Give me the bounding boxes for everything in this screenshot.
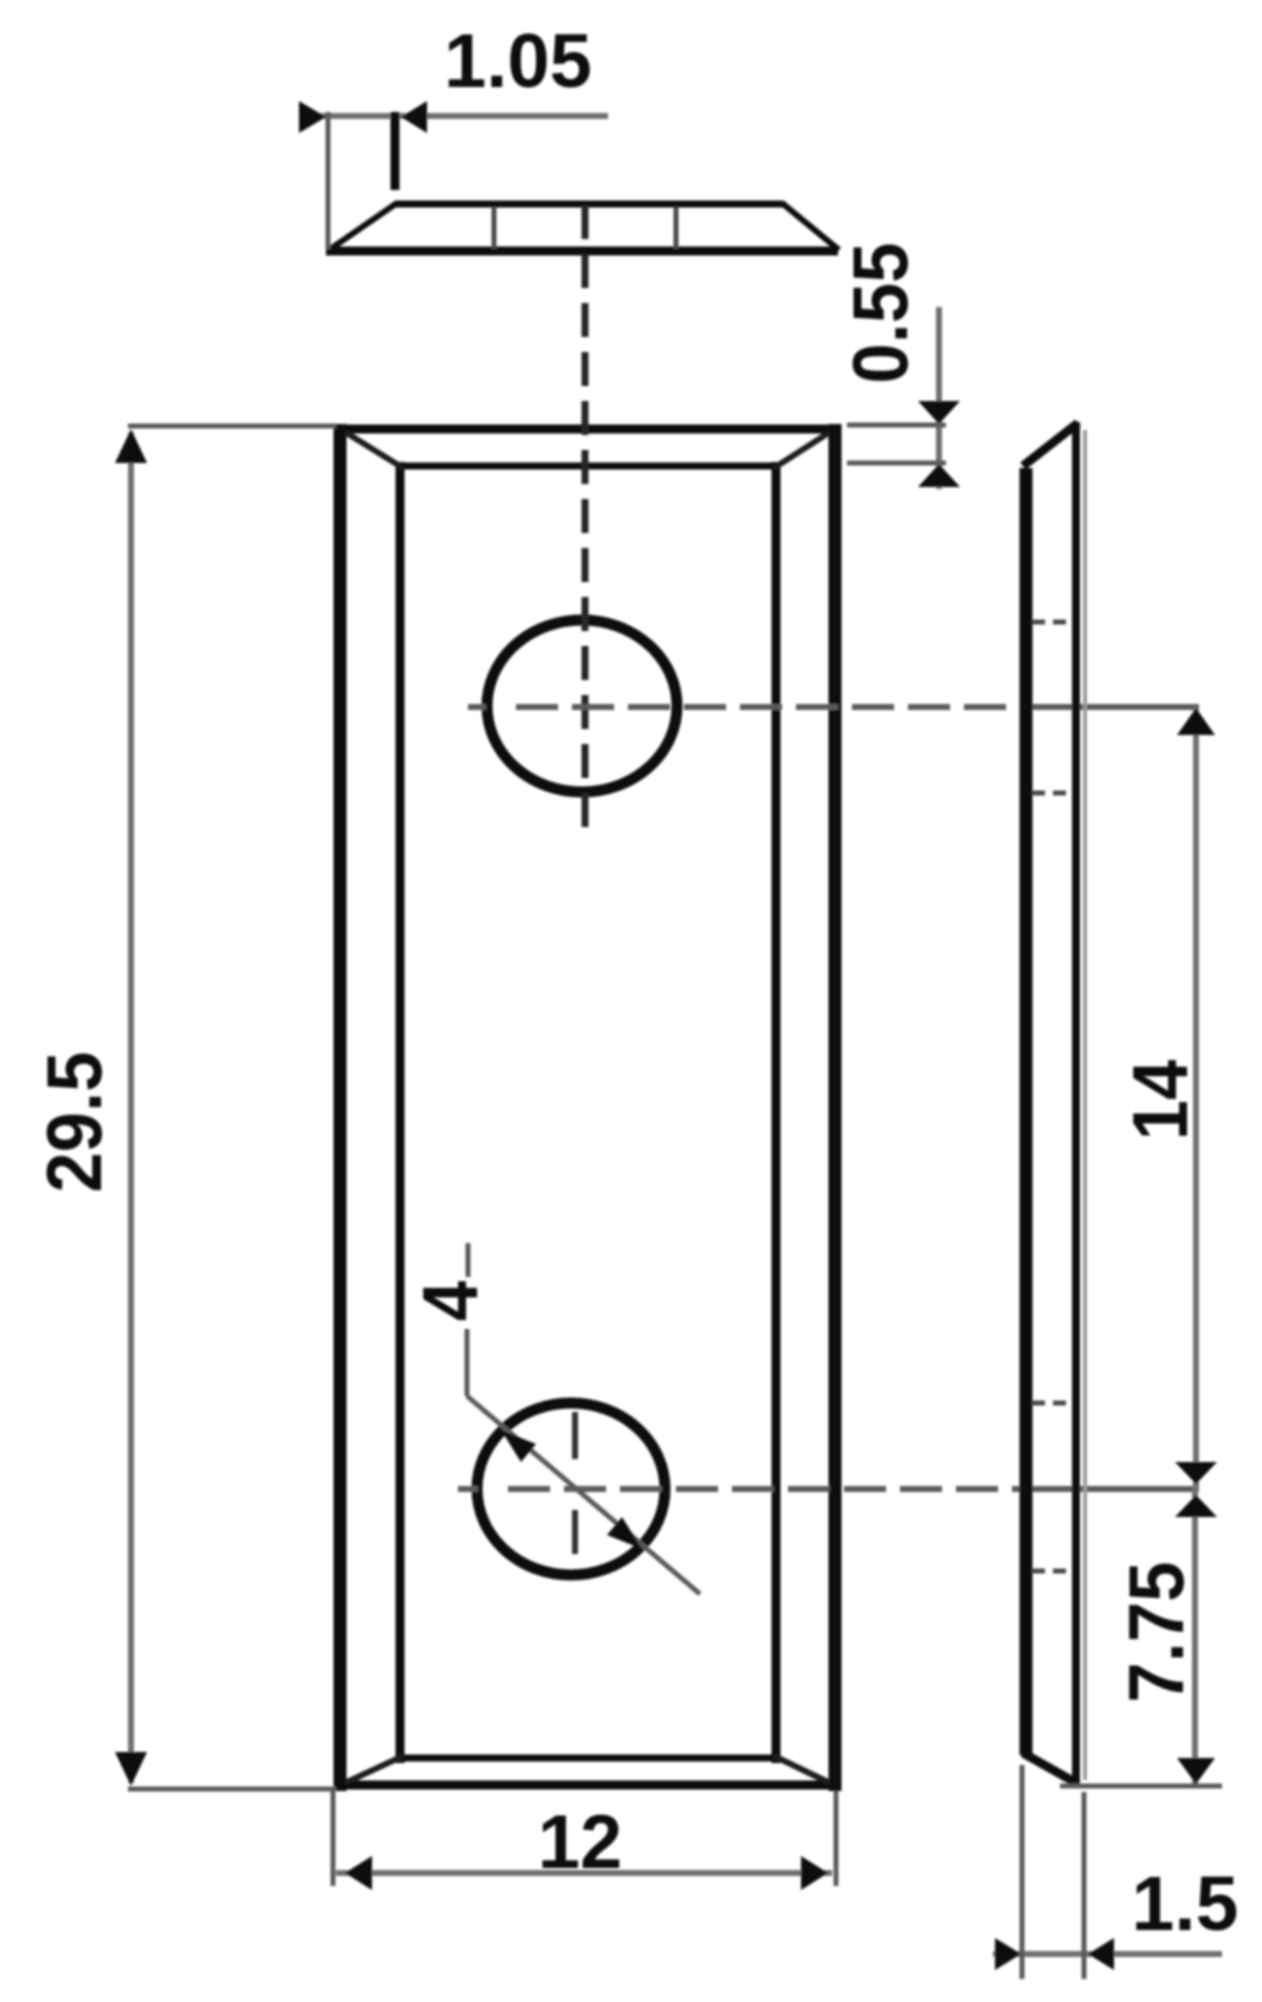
- horizontal centerline bottom hole: [458, 1486, 1199, 1492]
- dim 1.05 dimension line: [300, 113, 608, 119]
- front view outer left edge: [334, 424, 347, 1791]
- top view left slant: [329, 203, 397, 250]
- front view inner top edge: [396, 463, 780, 470]
- leader dia4 lower tick: [465, 1329, 470, 1396]
- dim 12 dimension line: [336, 1870, 832, 1876]
- dim 29.5 extension bottom: [128, 1787, 336, 1792]
- bottom hole vertical center mark lower: [572, 1510, 578, 1554]
- dim 14 bottom arrow: [1175, 1462, 1217, 1484]
- svg-text:0.55: 0.55: [837, 242, 924, 383]
- side view right edge: [1072, 422, 1080, 1784]
- top view tick left: [492, 207, 497, 249]
- dim 29.5 bottom arrow: [115, 1752, 147, 1786]
- dim 0.55 lower arrow: [918, 464, 960, 487]
- side view top bevel: [1023, 423, 1078, 466]
- top view tick right: [674, 207, 679, 249]
- leader dia4 diagonal: [467, 1396, 700, 1594]
- dim 1.05 extension line left: [326, 112, 331, 249]
- bottom hole: [477, 1403, 665, 1575]
- svg-text:12: 12: [538, 1800, 623, 1885]
- side view hidden dash top-hole lower: [1032, 791, 1072, 796]
- dim 7.75 dimension line: [1192, 1489, 1198, 1786]
- dim 1.5 dimension line: [993, 1951, 1222, 1957]
- side view hidden dash bottom-hole lower: [1032, 1569, 1072, 1574]
- dim 12 right arrow: [801, 1856, 828, 1890]
- svg-text:7.75: 7.75: [1113, 1561, 1200, 1702]
- vertical centerline: [582, 205, 589, 828]
- dim 0.55 dimension line: [936, 307, 942, 489]
- dim 1.05 extension tick black: [391, 112, 400, 190]
- dim 1.05 left arrow: [299, 101, 326, 133]
- dim 29.5 extension top: [128, 424, 336, 429]
- side view left edge: [1020, 468, 1033, 1755]
- top hole: [487, 620, 677, 792]
- front view outer top edge: [334, 425, 841, 434]
- leader dia4 upper arrow: [501, 1430, 536, 1462]
- front view inner bottom edge: [396, 1755, 780, 1762]
- dim 29.5 top arrow: [115, 429, 147, 463]
- front view bevel bottom-right: [774, 1756, 830, 1783]
- dim 1.5 left arrow: [995, 1938, 1021, 1970]
- front view bevel top-right: [774, 432, 830, 468]
- front view bevel bottom-left: [345, 1756, 403, 1783]
- front view outer right edge: [829, 424, 842, 1791]
- dim 1.5 extension left: [1020, 1765, 1025, 1979]
- dim 0.55 extension upper: [847, 423, 946, 428]
- horizontal centerline top hole: [468, 704, 1199, 710]
- svg-text:14: 14: [1117, 1060, 1204, 1141]
- leader dia4 lower arrow: [607, 1517, 642, 1549]
- dim 1.5 right arrow: [1088, 1938, 1114, 1970]
- side view bottom bevel: [1023, 1753, 1078, 1784]
- dim 1.05 right arrow: [401, 101, 427, 133]
- front view inner right edge: [772, 462, 781, 1763]
- top view trapezoid bottom line: [326, 247, 838, 256]
- svg-text:29.5: 29.5: [31, 1051, 118, 1192]
- top view right slant: [782, 203, 839, 250]
- dim 7.75 top arrow: [1175, 1495, 1217, 1517]
- front view inner left edge: [396, 462, 405, 1763]
- side view hidden dash bottom-hole upper: [1032, 1401, 1072, 1406]
- front view outer bottom edge: [334, 1781, 841, 1790]
- svg-text:1.05: 1.05: [444, 19, 592, 104]
- dim 1.5 extension right: [1082, 1792, 1087, 1979]
- leader dia4 top tick: [466, 1243, 471, 1277]
- side view right edge shadow: [1083, 430, 1087, 1780]
- top view trapezoid top line: [395, 201, 783, 208]
- front view bevel top-left: [345, 432, 403, 468]
- svg-text:4: 4: [407, 1281, 494, 1321]
- dim 0.55 extension lower: [847, 461, 946, 466]
- dim 14 dimension line: [1193, 707, 1199, 1489]
- svg-text:1.5: 1.5: [1131, 1861, 1238, 1947]
- dim 12 extension left: [331, 1791, 336, 1886]
- dim 12 extension right: [834, 1791, 839, 1886]
- dim 0.55 upper arrow: [918, 401, 960, 424]
- dim 29.5 dimension line: [128, 432, 134, 1783]
- dim 14 top arrow: [1177, 708, 1215, 735]
- side view hidden dash top-hole upper: [1032, 620, 1072, 625]
- dim 7.75 bottom arrow: [1177, 1758, 1215, 1784]
- dim 12 left arrow: [345, 1856, 372, 1890]
- bottom hole vertical center mark upper: [572, 1412, 578, 1459]
- dim 7.75 extension bottom: [1060, 1784, 1222, 1789]
